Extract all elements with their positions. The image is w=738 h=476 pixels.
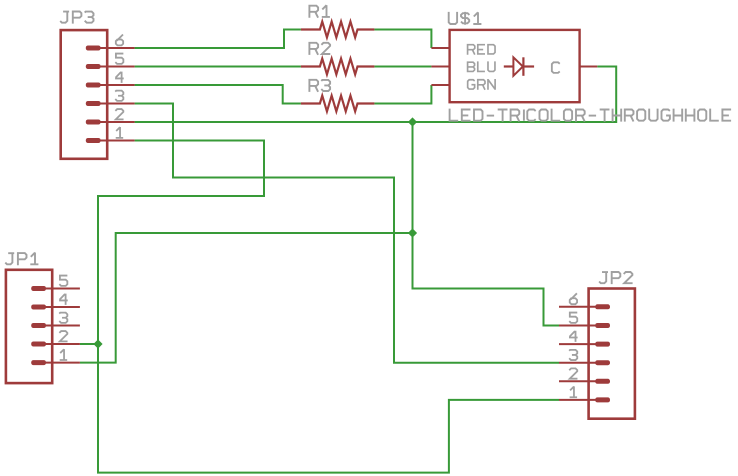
diode symbol of U$1 bbox=[504, 57, 534, 76]
wire JP1 pin2 stub bbox=[80, 343, 98, 345]
junction A bbox=[408, 117, 417, 126]
wire JP3 pin6 to R1 bbox=[135, 30, 301, 49]
JP2 pin 1 bbox=[559, 397, 610, 402]
JP2 pin 1 number bbox=[570, 386, 577, 397]
JP2 pin 6 bbox=[559, 304, 610, 309]
junction C bbox=[93, 339, 102, 348]
JP2 pin 5 number bbox=[569, 313, 577, 323]
connector JP3 label bbox=[60, 12, 93, 24]
junction B bbox=[408, 228, 417, 237]
U$1 pin GRN lead bbox=[431, 84, 449, 86]
JP2 pin 6 number bbox=[570, 293, 577, 304]
connector JP1 label bbox=[5, 253, 38, 266]
U$1 pin GRN name bbox=[468, 79, 495, 90]
JP1 pin 2 number bbox=[59, 331, 67, 341]
JP1 pin 4 bbox=[31, 305, 80, 310]
JP1 pin 4 number bbox=[59, 294, 68, 305]
JP1 pin 3 number bbox=[59, 313, 67, 323]
resistor R3 bbox=[301, 96, 375, 112]
connector JP2 body bbox=[589, 289, 635, 419]
wire R1 to U$1 RED bbox=[374, 30, 431, 49]
JP3 pin 2 bbox=[86, 120, 135, 125]
JP1 pin 5 bbox=[31, 286, 80, 291]
JP3 pin 4 number bbox=[115, 72, 124, 83]
JP2 pin 2 number bbox=[569, 368, 577, 378]
wire JP1 pin1 to junction B bbox=[80, 233, 413, 363]
connector JP1 body bbox=[6, 270, 52, 383]
connector JP3 body bbox=[61, 30, 107, 159]
JP3 pin 5 number bbox=[115, 54, 123, 64]
U$1 pin C name bbox=[552, 62, 560, 73]
JP2 pin 2 bbox=[559, 379, 610, 384]
U$1 value label bbox=[450, 109, 731, 122]
JP3 pin 5 bbox=[86, 64, 135, 69]
connector JP2 label bbox=[599, 272, 633, 284]
LED U$1 body bbox=[450, 30, 580, 102]
wire JP3 pin3 to JP2 pin3 bbox=[135, 104, 559, 363]
U$1 pin RED lead bbox=[431, 47, 449, 49]
wire JP3 pin4 to R3 bbox=[135, 85, 301, 104]
JP2 pin 4 number bbox=[569, 331, 578, 342]
JP1 pin 5 number bbox=[59, 276, 67, 286]
resistor R2 bbox=[301, 59, 375, 75]
resistor R2 label bbox=[309, 43, 330, 55]
resistor R1 label bbox=[309, 5, 329, 18]
U$1 pin BLU lead bbox=[431, 66, 449, 68]
JP1 pin 1 bbox=[31, 360, 80, 365]
JP2 pin 4 bbox=[559, 342, 610, 347]
wire JP3 pin5 to R2 bbox=[135, 66, 301, 68]
JP1 pin 2 bbox=[31, 342, 80, 347]
JP3 pin 6 bbox=[86, 46, 135, 51]
JP2 pin 5 bbox=[559, 323, 610, 328]
resistor R1 bbox=[301, 22, 375, 38]
U$1 pin RED name bbox=[468, 45, 495, 55]
JP3 pin 3 bbox=[86, 101, 135, 106]
JP3 pin 4 bbox=[86, 83, 135, 88]
JP1 pin 1 number bbox=[60, 349, 67, 360]
JP3 pin 1 number bbox=[116, 127, 123, 138]
LED U$1 label bbox=[449, 12, 482, 25]
wire JP3 pin2 to U$1 C bbox=[135, 67, 617, 123]
wire branch junction A to JP2 pin5 bbox=[413, 122, 560, 326]
resistor R3 label bbox=[309, 80, 330, 92]
JP2 pin 3 bbox=[559, 360, 610, 365]
wire R2 to U$1 BLU bbox=[374, 66, 431, 68]
JP1 pin 3 bbox=[31, 323, 80, 328]
U$1 pin BLU name bbox=[468, 61, 495, 71]
U$1 pin C lead bbox=[580, 66, 598, 68]
JP3 pin 6 number bbox=[116, 35, 123, 46]
JP3 pin 3 number bbox=[115, 91, 123, 101]
JP3 pin 2 number bbox=[115, 109, 123, 119]
wire R3 to U$1 GRN bbox=[374, 85, 431, 104]
JP3 pin 1 bbox=[86, 138, 135, 143]
JP2 pin 3 number bbox=[569, 350, 577, 360]
wire JP3 pin1 to JP1 pin2 and JP2 pin1 bbox=[98, 141, 559, 473]
